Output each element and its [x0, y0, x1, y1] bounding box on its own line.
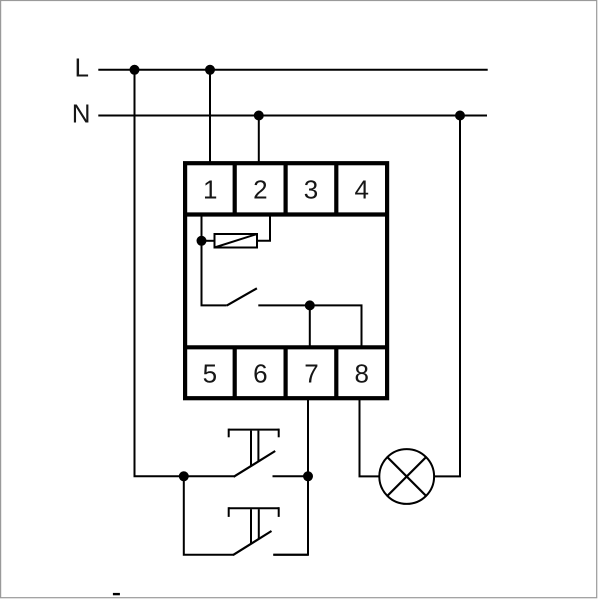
node on N bus right — [455, 111, 465, 121]
device U1 top terminal row bottom edge — [184, 212, 388, 216]
button S1 actuator left tick — [228, 429, 230, 438]
button S2 actuator left tick — [228, 507, 230, 517]
wire left node to button S2 — [184, 476, 234, 554]
wire terminal 8 to lamp — [360, 400, 379, 477]
button S1 stem right — [257, 431, 259, 462]
relay coil K1 diagonal — [215, 234, 258, 248]
node coil input — [197, 236, 207, 246]
wire terminal 7 to button bus — [273, 400, 308, 555]
button S2 stem left — [250, 509, 252, 544]
svg-text:5: 5 — [203, 358, 217, 388]
node contact to terminal 7 — [305, 300, 315, 310]
lamp E1 cross stroke 1 — [388, 457, 426, 495]
wire contact to terminal 8 — [258, 305, 361, 346]
wire coil to terminal 2 — [257, 216, 270, 241]
wire N bus — [98, 115, 487, 117]
wire node to coil — [205, 240, 215, 242]
button S1 actuator right tick — [278, 429, 280, 438]
relay contact blade — [227, 288, 257, 305]
wire L bus — [98, 69, 487, 71]
separator terminals 6|7 — [284, 347, 288, 398]
node button bus — [303, 471, 313, 481]
device U1 outline — [185, 163, 387, 398]
svg-text:N: N — [72, 98, 91, 128]
svg-text:7: 7 — [304, 358, 318, 388]
separator terminals 1|2 — [233, 163, 237, 214]
caption dash — [113, 593, 120, 595]
device U1 bottom terminal row top edge — [184, 345, 388, 349]
button S2 blade — [233, 531, 272, 555]
svg-text:3: 3 — [304, 174, 318, 204]
button S2 actuator bar — [229, 507, 279, 509]
button S1 left lead — [184, 475, 234, 477]
button S1 right lead — [273, 475, 309, 477]
wire L drop to buttons — [135, 70, 184, 477]
button S1 actuator bar — [229, 429, 279, 431]
wire N to terminal 2 — [258, 116, 260, 164]
lamp E1 circle — [379, 449, 434, 504]
svg-text:8: 8 — [354, 358, 368, 388]
button S2 right lead — [273, 554, 308, 556]
wire L to terminal 1 — [209, 70, 211, 163]
node on L bus right — [205, 65, 215, 75]
svg-text:2: 2 — [253, 174, 267, 204]
svg-text:L: L — [75, 53, 89, 83]
separator terminals 7|8 — [334, 347, 338, 398]
relay coil K1 — [215, 234, 258, 248]
button S2 actuator right tick — [278, 507, 280, 517]
separator terminals 5|6 — [233, 347, 237, 398]
button S1 blade — [234, 451, 276, 477]
wire switch pole — [202, 243, 227, 305]
wire node to terminal 7 — [309, 305, 311, 346]
lamp E1 cross stroke 2 — [388, 457, 426, 495]
svg-text:4: 4 — [354, 174, 368, 204]
separator terminals 2|3 — [284, 163, 288, 214]
node on L bus left — [130, 65, 140, 75]
button S2 stem right — [258, 509, 260, 539]
button S1 stem left — [250, 431, 252, 466]
separator terminals 3|4 — [334, 163, 338, 214]
node on N bus left — [254, 111, 264, 121]
wire terminal 1 to coil node — [201, 216, 203, 241]
svg-text:1: 1 — [203, 174, 217, 204]
svg-text:6: 6 — [253, 358, 267, 388]
node buttons left — [179, 471, 189, 481]
wire N drop to lamp — [435, 116, 460, 477]
